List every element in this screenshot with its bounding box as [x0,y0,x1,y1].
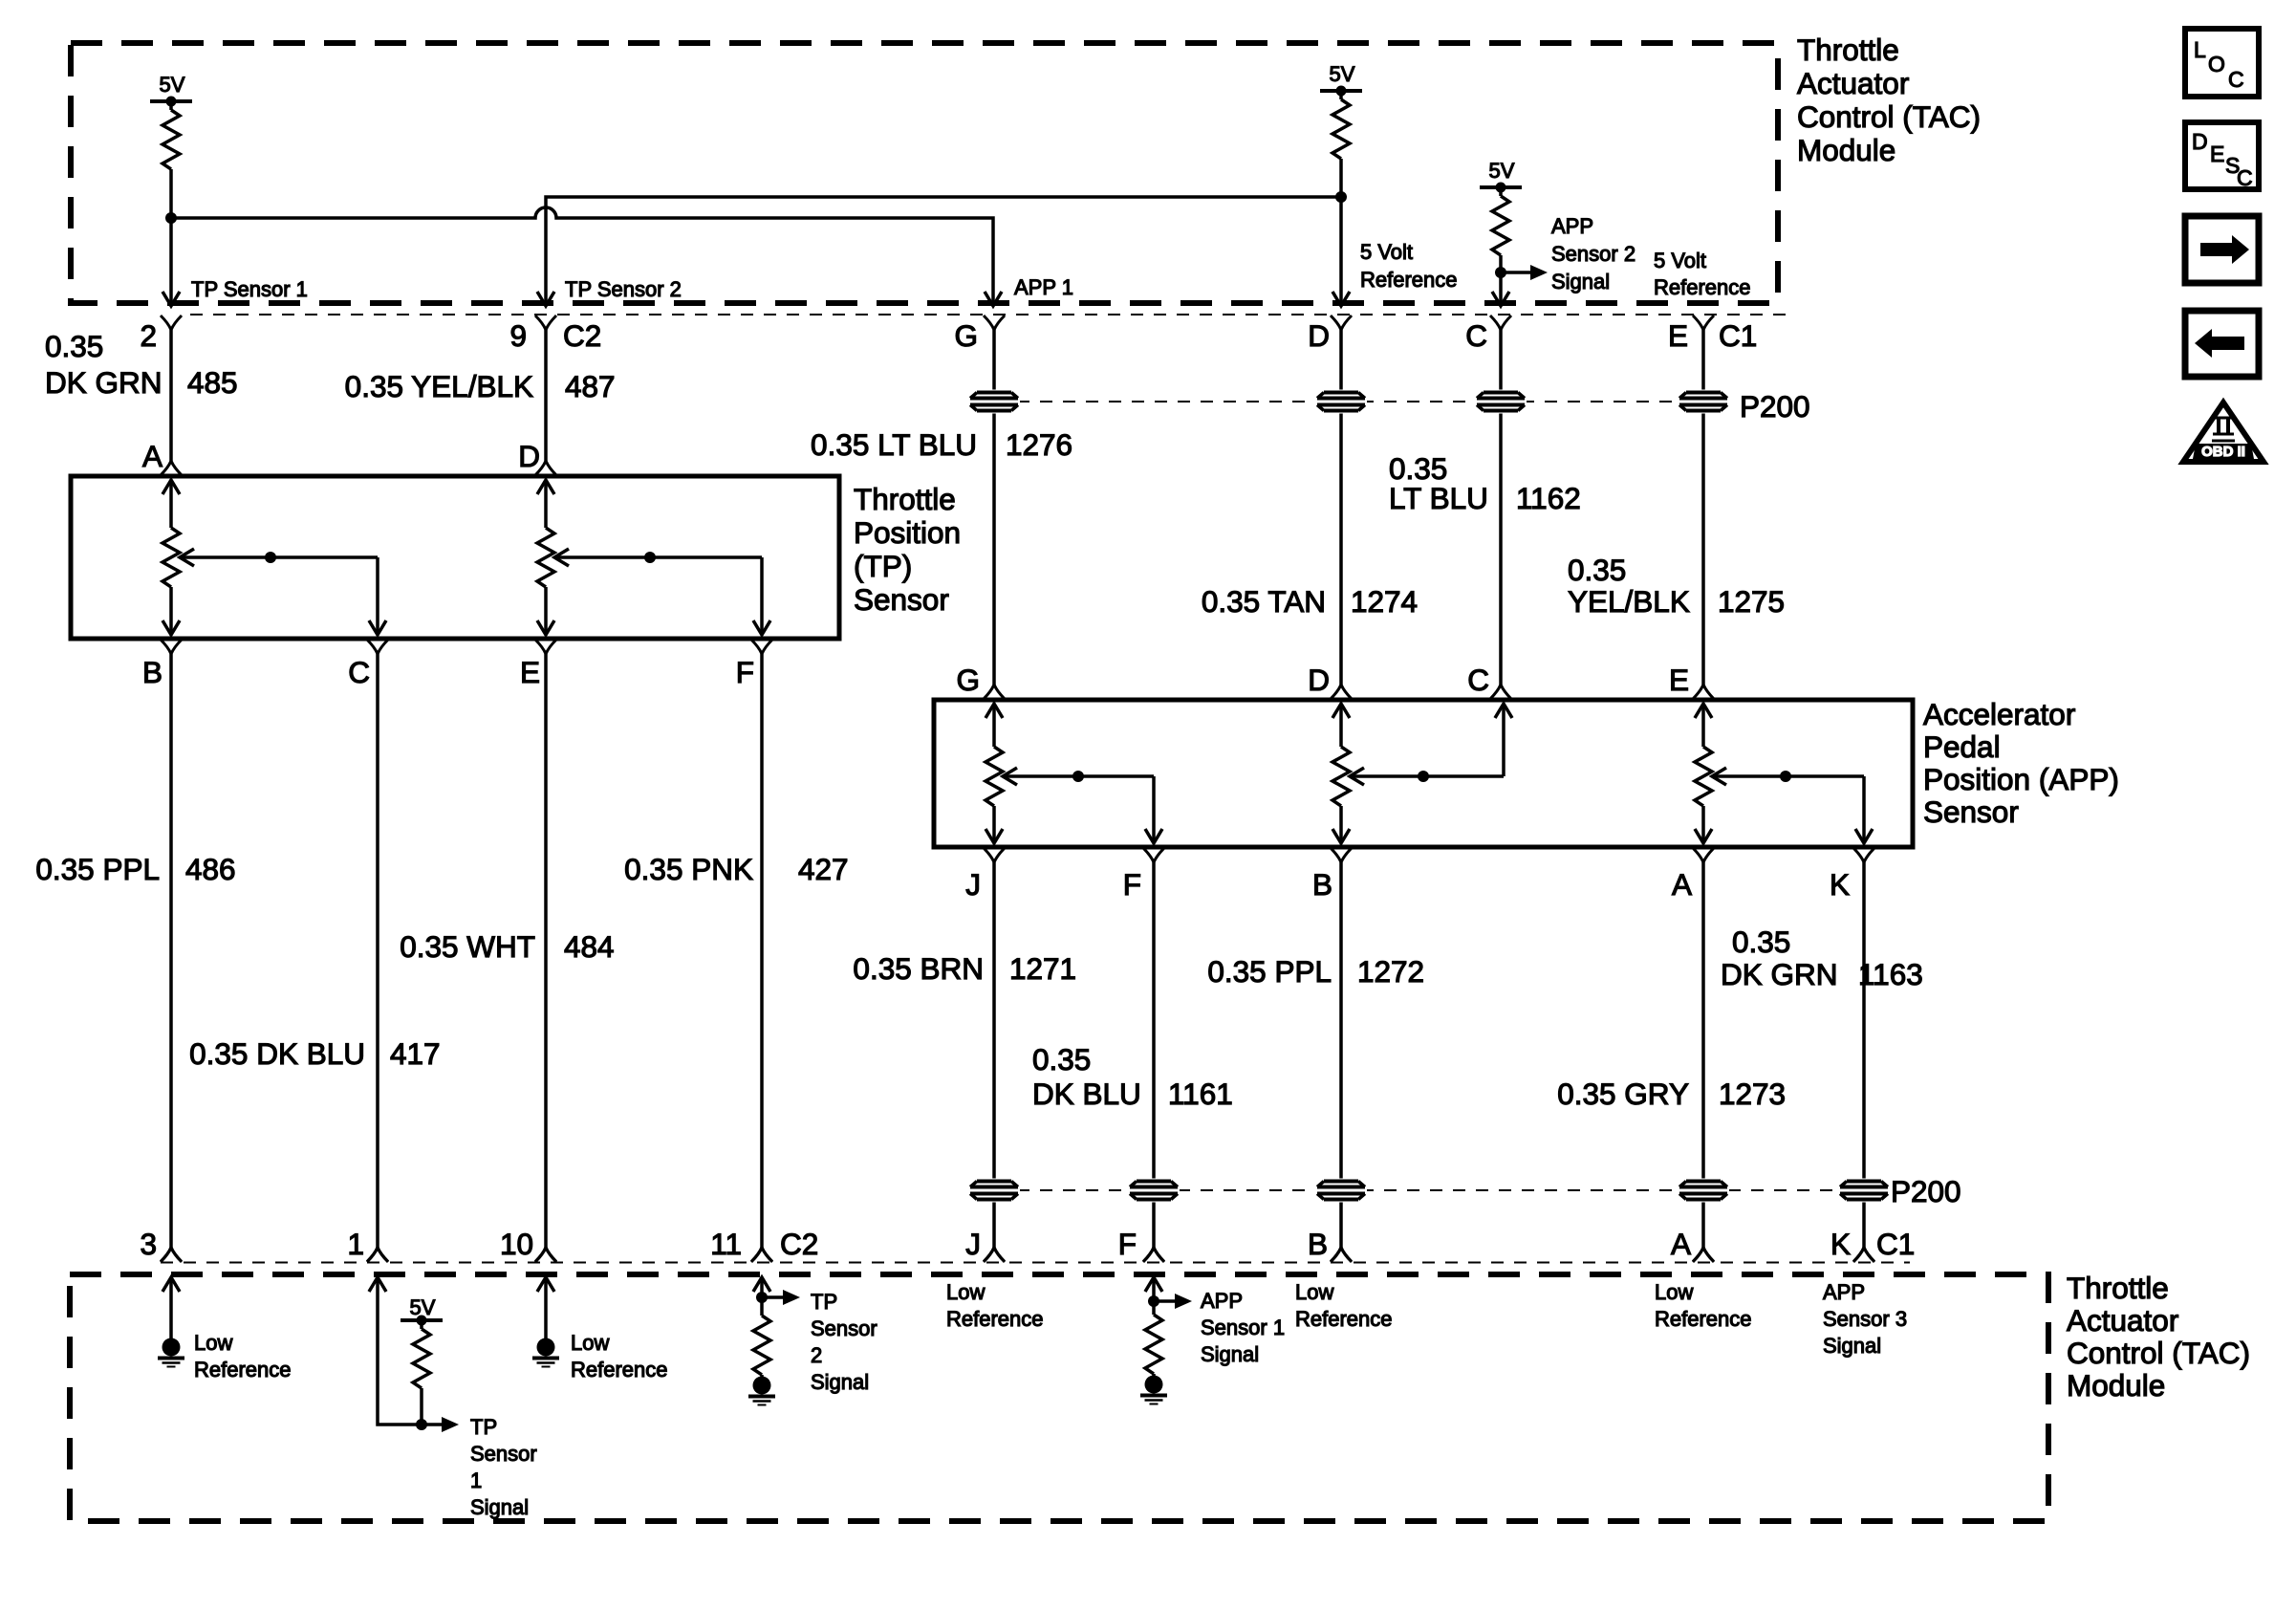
svg-text:0.35 LT BLU: 0.35 LT BLU [811,427,977,462]
svg-text:Sensor: Sensor [811,1316,877,1340]
svg-text:Reference: Reference [194,1358,292,1382]
APP box terminal J [984,848,1005,862]
svg-text:0.35: 0.35 [1568,553,1626,587]
svg-text:0.35: 0.35 [1032,1042,1091,1077]
svg-text:1274: 1274 [1351,584,1418,619]
icon: DESC button [2185,122,2259,189]
ground G2 (Low Reference pin 10) [537,1338,555,1357]
svg-text:Low: Low [1295,1280,1333,1304]
svg-text:Actuator: Actuator [1797,66,1909,100]
TP box terminal C [367,640,388,654]
svg-text:484: 484 [564,929,615,964]
svg-text:1273: 1273 [1719,1077,1786,1111]
svg-text:DK GRN: DK GRN [45,365,162,400]
svg-text:Control (TAC): Control (TAC) [2067,1336,2250,1370]
wire 1271 BRN (APP J to pin J) [992,862,996,1248]
svg-text:A: A [142,439,162,473]
svg-text:C: C [2237,165,2253,190]
svg-text:5V: 5V [1489,159,1515,183]
junction wiper TP2 [644,552,656,563]
svg-text:Reference: Reference [571,1358,668,1382]
resistor R5 (TAC internal, TP Sensor 2 signal) [760,1297,764,1316]
connector terminal pin J (bottom) [984,1248,1005,1262]
svg-text:DK BLU: DK BLU [1032,1077,1141,1111]
svg-text:5 Volt: 5 Volt [1360,240,1413,264]
svg-text:E: E [1669,663,1689,697]
svg-text:2: 2 [811,1343,822,1367]
svg-text:2: 2 [140,318,157,353]
svg-text:1271: 1271 [1009,951,1076,986]
svg-text:Reference: Reference [1295,1307,1393,1331]
svg-text:L: L [2194,37,2206,62]
wire 427 PNK (TP F to pin 11) [760,654,764,1248]
wire 487 YEL/BLK (pin 9 to TP sensor D) [544,330,548,461]
svg-text:Position (APP): Position (APP) [1923,762,2119,796]
icon: LOC button [2185,29,2259,97]
svg-text:Accelerator: Accelerator [1923,697,2075,731]
svg-text:1272: 1272 [1357,954,1424,989]
wiper APP1 (to pin F) [1003,768,1017,785]
resistor R6 (TAC internal, APP Sensor 1 signal) [1152,1301,1156,1315]
svg-text:Actuator: Actuator [2067,1303,2178,1338]
svg-text:APP: APP [1201,1289,1243,1313]
wiper TP1 (to pin C) [180,549,194,566]
svg-text:427: 427 [798,852,849,886]
svg-text:APP: APP [1823,1280,1865,1304]
svg-text:F: F [1118,1227,1137,1261]
svg-text:Signal: Signal [1551,270,1610,294]
svg-text:Low: Low [1655,1280,1693,1304]
junction J6 (APP Sensor 1 signal node) [1148,1295,1159,1307]
svg-text:J: J [965,1227,981,1261]
wire 1273 GRY (APP A to pin A) [1701,862,1705,1248]
svg-text:0.35 GRY: 0.35 GRY [1557,1077,1689,1111]
svg-text:487: 487 [565,369,616,403]
svg-text:Reference: Reference [1655,1307,1752,1331]
grommet P200 at x=1040 (top row) [968,390,1020,414]
wire 1276 LT BLU (pin G to APP sensor G) [992,330,996,685]
svg-text:P200: P200 [1740,389,1810,424]
junction J3 (APP Sensor 2 signal node) [1495,267,1506,278]
resistor R4 (TAC internal, TP Sensor 1 signal) [420,1320,423,1329]
svg-text:TP Sensor 2: TP Sensor 2 [565,277,682,301]
svg-text:0.35 PNK: 0.35 PNK [624,852,753,886]
svg-text:TP: TP [470,1415,497,1439]
connector terminal pin 9 (top) [535,315,556,330]
potentiometer APP3 element [1695,704,1712,718]
svg-text:1276: 1276 [1006,427,1072,462]
grommet P200 at x=1403 (bottom row) [1315,1179,1367,1203]
svg-text:OBD II: OBD II [2201,444,2245,460]
wire: TP Sensor 2 feed to pin 9 [546,197,1341,306]
svg-text:C: C [1465,318,1487,353]
connector line (top, TAC harness connector) [190,314,1789,315]
svg-text:DK GRN: DK GRN [1721,957,1838,991]
svg-text:(TP): (TP) [854,549,912,583]
wire 1162 LT BLU (pin C to APP sensor C) [1499,330,1503,685]
svg-text:B: B [1308,1227,1328,1261]
svg-text:Position: Position [854,515,961,550]
svg-text:Signal: Signal [1823,1334,1881,1358]
potentiometer TP1 element [162,480,180,494]
connector terminal pin E (top) [1693,315,1714,330]
svg-text:Control (TAC): Control (TAC) [1797,99,1981,134]
svg-text:C1: C1 [1876,1227,1915,1261]
junction J5 (TP Sensor 2 signal node) [756,1292,768,1303]
junction J2 (node 5V ref) [1335,191,1347,203]
connector terminal pin G (top) [984,315,1005,330]
svg-text:A: A [1671,1227,1691,1261]
svg-text:E: E [1668,318,1688,353]
svg-text:0.35 DK BLU: 0.35 DK BLU [189,1036,365,1071]
resistor R3 (TAC internal pull-up APP Sensor 2) [1499,187,1503,196]
wiper APP2 (to pin C) [1350,768,1364,785]
wire 484 WHT (TP E to pin 10) [544,654,548,1248]
connector terminal pin F (bottom) [1143,1248,1164,1262]
resistor R1 (TAC internal, 5V pull-up TP Sensor 1) [169,101,173,110]
wire 1274 TAN (pin D to APP sensor D) [1339,330,1343,685]
connector terminal pin C (top) [1490,315,1511,330]
grommet P200 at x=1403 (top row) [1315,390,1367,414]
grommet P200 at x=1207 (bottom row) [1128,1179,1180,1203]
TP box terminal F [751,640,772,654]
svg-text:3: 3 [140,1227,157,1261]
wire: APP Sensor 2 signal down to pin C [1499,272,1503,306]
connector line (bottom, TAC harness connector) [161,1262,1910,1264]
connector terminal pin K (bottom) [1853,1248,1874,1262]
wire: TP Sensor 1 output down to pin 2 [169,218,173,306]
signal arrow: TP Sensor 1 Signal [422,1423,444,1426]
svg-text:C: C [348,655,370,689]
svg-text:C: C [1467,663,1489,697]
wire 485 DK GRN (pin 2 to TP sensor A) [169,330,173,461]
svg-text:D: D [518,439,540,473]
icon: OBD II triangle [2183,402,2264,462]
svg-text:Pedal: Pedal [1923,729,2001,764]
svg-text:K: K [1830,1227,1851,1261]
grommet P200 at x=1570 (top row) [1475,390,1527,414]
connector terminal pin 1 (bottom) [367,1248,388,1262]
svg-text:1: 1 [347,1227,364,1261]
svg-text:Sensor 1: Sensor 1 [1201,1316,1285,1339]
pass-through dashed line (P200 bottom) [994,1189,1864,1191]
svg-text:Sensor: Sensor [854,582,949,617]
svg-text:Signal: Signal [811,1370,869,1394]
svg-text:F: F [736,655,754,689]
junction J4 (TP Sensor 1 signal node) [416,1419,427,1430]
svg-text:B: B [142,655,162,689]
svg-text:C2: C2 [780,1227,818,1261]
wiper TP2 (to pin F) [554,549,569,566]
wire 1163 DK GRN (APP K to pin K) [1862,862,1866,1248]
wire 1272 PPL (APP B to pin B) [1339,862,1343,1248]
svg-text:Reference: Reference [1654,275,1751,299]
icon: forward arrow button [2185,216,2259,283]
svg-text:O: O [2208,52,2225,76]
svg-text:K: K [1830,867,1850,902]
pass-through dashed line (P200 top) [994,401,1703,402]
svg-text:1162: 1162 [1516,481,1581,515]
wire 1275 YEL/BLK (pin E to APP sensor E) [1701,330,1705,685]
svg-text:0.35: 0.35 [45,329,103,363]
grommet P200 at x=1040 (bottom row) [968,1179,1020,1203]
svg-text:D: D [2192,129,2208,154]
svg-text:Low: Low [571,1331,609,1355]
svg-text:Low: Low [946,1280,985,1304]
module box: Throttle Actuator Control (TAC) Module (top) [71,43,1778,303]
junction wiper APP3 [1780,771,1791,782]
wire: J1 to APP 1 (hops over TP Sensor 2 wire) [171,207,993,306]
svg-text:B: B [1312,867,1332,902]
svg-text:E: E [2210,141,2224,166]
svg-text:F: F [1123,867,1141,902]
grommet P200 at x=1950 (bottom row) [1838,1179,1890,1203]
APP box terminal K [1853,848,1874,862]
svg-text:TP Sensor 1: TP Sensor 1 [191,277,308,301]
connector terminal pin D (top) [1331,315,1352,330]
svg-text:E: E [520,655,540,689]
svg-text:Sensor 2: Sensor 2 [1551,242,1635,266]
svg-text:C: C [2228,67,2244,92]
APP box terminal A [1693,848,1714,862]
svg-text:0.35 PPL: 0.35 PPL [1207,954,1332,989]
wire 417 DK BLU (TP C to pin 1) [376,654,379,1248]
wire 486 PPL (TP B to pin 3) [169,654,173,1248]
svg-text:LT BLU: LT BLU [1389,481,1488,515]
svg-text:0.35: 0.35 [1732,925,1790,959]
svg-text:5V: 5V [1330,62,1355,86]
svg-text:Throttle: Throttle [2067,1271,2169,1305]
svg-text:9: 9 [509,318,527,353]
svg-text:0.35 BRN: 0.35 BRN [853,951,984,986]
component box: Accelerator Pedal Position (APP) Sensor [934,700,1913,847]
APP box terminal B [1331,848,1352,862]
svg-text:Throttle: Throttle [854,482,956,516]
svg-text:A: A [1672,867,1692,902]
ground G4 (APP Sensor 1 signal) [1145,1376,1163,1394]
junction wiper APP1 [1072,771,1084,782]
svg-text:APP 1: APP 1 [1014,275,1073,299]
svg-text:Low: Low [194,1331,232,1355]
wire: pin 10 into module (arrow up) [537,1277,554,1292]
connector terminal pin A (bottom) [1693,1248,1714,1262]
svg-text:Module: Module [2067,1368,2165,1403]
svg-text:P200: P200 [1891,1174,1961,1208]
component box: Throttle Position (TP) Sensor [71,476,839,639]
icon: back arrow button [2185,311,2259,377]
svg-text:Sensor: Sensor [1923,794,2019,829]
svg-text:YEL/BLK: YEL/BLK [1568,584,1690,619]
svg-text:417: 417 [390,1036,441,1071]
svg-text:485: 485 [187,365,238,400]
junction wiper APP2 [1418,771,1429,782]
svg-text:1161: 1161 [1168,1077,1233,1111]
svg-text:APP: APP [1551,214,1593,238]
svg-text:C1: C1 [1719,318,1757,353]
svg-text:1: 1 [470,1469,482,1492]
signal arrow: APP Sensor 2 Signal [1501,271,1532,274]
svg-text:Sensor: Sensor [470,1442,537,1466]
svg-text:Sensor 3: Sensor 3 [1823,1307,1907,1331]
svg-text:Reference: Reference [1360,268,1458,292]
TP box terminal B [161,640,182,654]
potentiometer APP1 element [986,704,1003,718]
svg-text:0.35 PPL: 0.35 PPL [35,852,160,886]
svg-text:0.35 TAN: 0.35 TAN [1202,584,1326,619]
svg-text:0.35 YEL/BLK: 0.35 YEL/BLK [345,369,533,403]
svg-text:1163: 1163 [1858,957,1923,991]
svg-text:G: G [954,318,978,353]
wire 1161 DK BLU (APP F to pin F) [1152,862,1156,1248]
signal arrow: TP Sensor 2 Signal [762,1295,785,1299]
svg-text:Signal: Signal [1201,1342,1259,1366]
svg-text:C2: C2 [563,318,601,353]
svg-text:Signal: Signal [470,1495,529,1519]
svg-text:G: G [956,663,980,697]
grommet P200 at x=1782 (bottom row) [1678,1179,1729,1203]
svg-text:Throttle: Throttle [1797,33,1899,67]
connector terminal pin 3 (bottom) [161,1248,182,1262]
svg-text:TP: TP [811,1290,837,1314]
svg-text:1275: 1275 [1718,584,1785,619]
wire: pin 11 into module (arrow up) [753,1277,770,1292]
svg-text:Reference: Reference [946,1307,1044,1331]
junction wiper TP1 [265,552,276,563]
grommet P200 at x=1782 (top row) [1678,390,1729,414]
connector terminal pin B (bottom) [1331,1248,1352,1262]
svg-text:5V: 5V [160,73,185,97]
svg-text:J: J [965,867,981,902]
wire: pin 1 into module (arrow up) [369,1277,386,1292]
signal arrow: APP Sensor 1 Signal [1154,1299,1177,1303]
ground G1 (Low Reference pin 3) [162,1338,181,1357]
connector terminal pin 2 (top) [161,315,182,330]
potentiometer TP2 element [537,480,554,494]
wire: pin F into module (arrow up) [1145,1277,1162,1292]
svg-text:11: 11 [710,1227,742,1261]
connector terminal pin 11 (bottom) [751,1248,772,1262]
module box: Throttle Actuator Control (TAC) Module (bottom) [70,1274,2048,1521]
connector terminal pin 10 (bottom) [535,1248,556,1262]
APP box terminal F [1143,848,1164,862]
svg-text:0.35 WHT: 0.35 WHT [400,929,535,964]
ground G3 (TP Sensor 2 signal) [753,1377,771,1395]
junction J1 (node 5V/TP Sensor 1) [165,212,177,224]
svg-text:5 Volt: 5 Volt [1654,249,1706,272]
svg-text:Module: Module [1797,133,1895,167]
svg-text:486: 486 [185,852,236,886]
wiper APP3 (to pin K) [1712,768,1726,785]
wire: pin 3 into module (arrow up) [162,1277,180,1292]
resistor R2 (TAC internal pull-up) [1339,91,1343,99]
svg-text:D: D [1308,318,1330,353]
svg-text:10: 10 [500,1227,533,1261]
potentiometer APP2 element [1332,704,1350,718]
TP box terminal E [535,640,556,654]
svg-text:D: D [1308,663,1330,697]
wire: 5 Volt Reference down to pin D [1339,197,1343,306]
